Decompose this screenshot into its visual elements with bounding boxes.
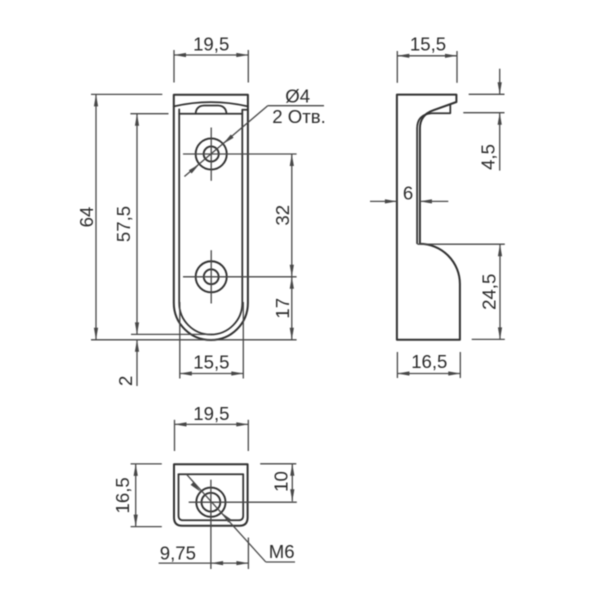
dim 64 arrows [94, 94, 98, 106]
dim 16,5 side line [397, 373, 460, 375]
dim 32 line [291, 154, 293, 277]
bottom view outer contour [174, 464, 248, 526]
dim 32 arrows [290, 154, 294, 166]
svg-text:24,5: 24,5 [479, 274, 500, 310]
front view inner contour (material thickness) [179, 109, 242, 334]
svg-text:57,5: 57,5 [113, 206, 134, 242]
front view top lip curve [174, 102, 248, 106]
dim 16,5 bottom arrows [134, 464, 138, 476]
dim 2 arrow [135, 340, 139, 352]
front view fold line [179, 113, 242, 115]
side view lip inner edge [417, 104, 450, 243]
dim 2 extension line outer [91, 339, 297, 341]
svg-text:4,5: 4,5 [478, 144, 499, 170]
dim 17 line [291, 277, 293, 340]
dim 16,5 side extension lines [396, 352, 398, 378]
dim 2 leader tail [136, 340, 138, 386]
dim 6 right arrow [420, 199, 432, 203]
dim 10 arrows [290, 464, 294, 476]
dim 16,5 bottom extension lines [131, 463, 162, 465]
dim 57,5 extension line top [130, 113, 168, 115]
dim 15,5 side extension lines [396, 51, 398, 83]
dim 57,5 line [136, 114, 138, 335]
dim 15,5 side line [397, 55, 457, 57]
hole 1 (top, Ø4) circles [204, 146, 219, 161]
svg-text:64: 64 [76, 207, 97, 228]
leader Ø4 arrows [189, 164, 200, 173]
dim 19,5 front arrows [174, 53, 186, 57]
dim 9,75 extension line right [247, 538, 249, 570]
dim 9,75 arrows [211, 561, 223, 565]
svg-text:17: 17 [272, 298, 293, 319]
dim 17 arrows [290, 277, 294, 289]
hole M6 centerlines [189, 501, 297, 503]
svg-text:Ø4: Ø4 [285, 85, 310, 106]
dim 4,5 upper arrow [498, 82, 502, 94]
hole 2 (bottom, Ø4) circles [204, 269, 219, 284]
dim 2 extension line inner [131, 333, 211, 335]
bottom view inner contour [179, 474, 244, 520]
svg-text:19,5: 19,5 [193, 403, 229, 424]
dim 57,5 arrows [135, 114, 139, 126]
dim 4,5 extension lines [469, 93, 505, 95]
svg-text:2 Отв.: 2 Отв. [272, 106, 326, 127]
dim 19,5 bottom extension lines [174, 420, 176, 451]
dim 24,5 arrows [498, 244, 502, 256]
dim 6 left arrow line [370, 200, 397, 202]
leader Ø4 line [184, 106, 267, 177]
dim 4,5 upper arrow line [499, 69, 501, 95]
hole 1 centerlines [183, 153, 297, 155]
leader M6 line [187, 474, 266, 562]
svg-text:16,5: 16,5 [411, 351, 447, 372]
svg-text:16,5: 16,5 [112, 477, 133, 513]
dim 19,5 bottom arrows [175, 422, 187, 426]
dim 15,5 front extension lines [179, 302, 181, 379]
dim 6 left arrow [385, 199, 397, 203]
svg-text:M6: M6 [269, 541, 295, 562]
dim 24,5 line [499, 244, 501, 339]
dim 19,5 front line [174, 54, 248, 56]
dim 15,5 side arrows [397, 54, 409, 58]
side view outer contour [397, 95, 460, 340]
front view centre tab bump [196, 105, 227, 113]
dim 6 right arrow line [420, 200, 448, 202]
dim 15,5 front line [180, 373, 244, 375]
dim 16,5 side arrows [397, 371, 409, 375]
dim 64 line [95, 94, 97, 339]
hole 2 centerlines [183, 276, 297, 278]
svg-text:6: 6 [403, 182, 413, 203]
dim 64 extension line top [91, 93, 162, 95]
svg-text:2: 2 [115, 376, 136, 386]
svg-text:15,5: 15,5 [410, 34, 446, 55]
dim 4,5 lower arrow [498, 113, 502, 125]
dim 9,75 line [159, 562, 249, 564]
dim 4,5 lower arrow line [499, 113, 501, 171]
svg-text:19,5: 19,5 [193, 34, 229, 55]
dim 10 line [291, 464, 293, 502]
svg-text:15,5: 15,5 [193, 352, 229, 373]
dim 19,5 bottom line [175, 423, 249, 425]
bottom view fold edge line [179, 473, 244, 475]
hole M6 circles [202, 493, 221, 512]
svg-text:9,75: 9,75 [160, 542, 196, 563]
dim 10 extension line [260, 463, 296, 465]
front view inner corner tick top right [242, 109, 248, 111]
front view outer contour [174, 95, 248, 340]
dim 15,5 front arrows [180, 371, 192, 375]
leader M6 arrows [191, 482, 201, 492]
dim 19,5 front extension lines [173, 50, 175, 83]
dim 16,5 bottom line [135, 464, 137, 527]
dim 24,5 extension lines [418, 243, 505, 245]
svg-text:32: 32 [272, 205, 293, 226]
svg-text:10: 10 [270, 471, 291, 492]
